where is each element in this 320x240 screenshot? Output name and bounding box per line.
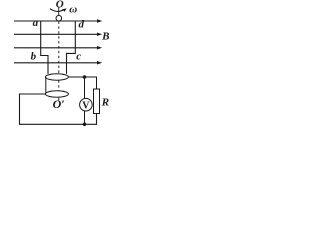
svg-text:b: b [31,51,37,63]
svg-text:d: d [79,19,85,31]
svg-text:a: a [33,17,39,29]
coil side a-b with lead to ring [41,21,48,74]
voltmeter V [80,98,93,111]
junction node [83,75,87,79]
arrowhead B2 [97,33,102,37]
junction node bottom [83,123,87,127]
svg-text:O: O [56,0,64,11]
axis dash above O' [58,98,60,101]
slip ring 2 [45,91,68,97]
slip ring 1 [45,74,68,80]
resistor R [94,89,100,114]
arrowhead B4 [97,61,102,65]
svg-text:O′: O′ [53,97,65,111]
field line B4 [14,62,99,64]
axis tick through rotation arrow [58,7,60,16]
wire resistor to bottom loop [20,94,97,124]
svg-text:ω: ω [69,4,77,16]
svg-text:c: c [76,51,81,63]
field line B3 [14,47,99,49]
rotation arrow arc [50,9,64,12]
rotation arrowhead [62,8,66,11]
field line B2 [14,33,99,35]
wire voltmeter to bottom junction [84,111,86,125]
arrowhead B3 [97,46,102,50]
svg-text:B: B [101,31,109,43]
wire ring1 to resistor branch [68,77,96,89]
svg-text:V: V [82,100,90,111]
wire junction down to voltmeter [84,77,86,98]
field line B1 [14,20,99,22]
ring connector wire [45,77,47,94]
svg-text:R: R [101,96,109,108]
coil side d-c with lead to ring [67,21,76,74]
pivot circle O [56,15,62,21]
arrowhead B1 [97,19,102,23]
dashed axis OO' [58,22,60,97]
